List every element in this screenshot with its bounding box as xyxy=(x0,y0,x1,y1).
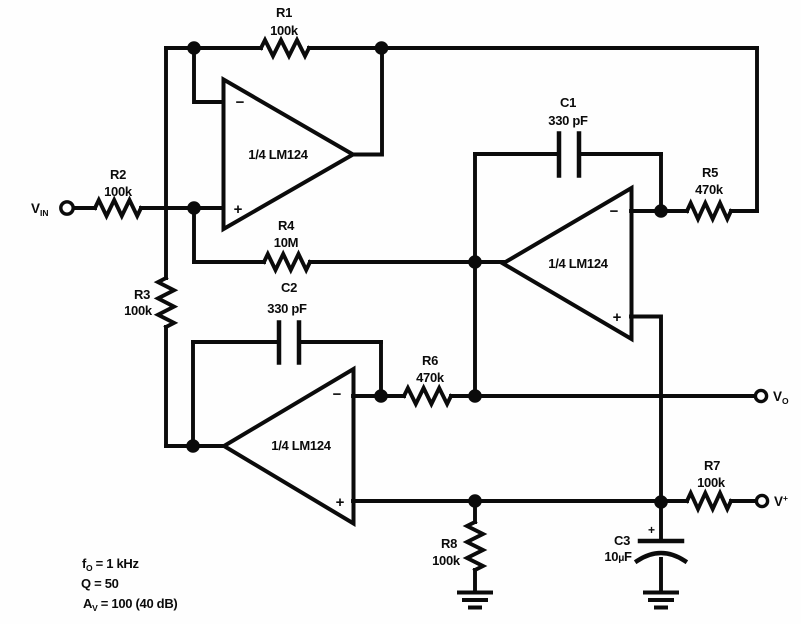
junction: op1 output on top bus xyxy=(375,41,389,55)
svg-text:R4: R4 xyxy=(278,218,295,233)
svg-text:100k: 100k xyxy=(432,553,461,568)
svg-text:100k: 100k xyxy=(270,23,299,38)
svg-text:10M: 10M xyxy=(274,235,298,250)
svg-text:1/4 LM124: 1/4 LM124 xyxy=(248,147,309,162)
svg-text:1/4 LM124: 1/4 LM124 xyxy=(271,438,332,453)
junction: op2 inverting node xyxy=(654,204,668,218)
capacitor C3 polarized plates xyxy=(640,539,682,544)
resistor R2 xyxy=(95,200,141,216)
wire: op1 inverting input drop from top bus xyxy=(194,48,223,102)
svg-text:R8: R8 xyxy=(441,536,457,551)
junction: op3 inverting node xyxy=(374,389,388,403)
svg-text:+: + xyxy=(613,309,622,326)
capacitor C1 plates xyxy=(559,134,579,176)
svg-text:10μF: 10μF xyxy=(604,549,632,564)
wire: C2 right leg down to op3 inverting node xyxy=(379,342,383,396)
op-amp U2 (1/4 LM124, middle right, mirrored) xyxy=(503,188,632,339)
wire: op3 inverting input / R6 / VO line xyxy=(353,394,755,398)
node V+ terminal xyxy=(756,495,767,506)
svg-text:330 pF: 330 pF xyxy=(548,113,588,128)
svg-text:R3: R3 xyxy=(134,287,150,302)
node VIN terminal xyxy=(61,202,73,214)
wire: op1 output up to top bus xyxy=(353,48,382,155)
svg-text:AV = 100 (40 dB): AV = 100 (40 dB) xyxy=(83,596,177,613)
resistor R7 xyxy=(687,493,731,509)
svg-text:470k: 470k xyxy=(416,370,445,385)
wire: R5 up to top bus xyxy=(755,48,759,211)
junction: op1 inverting node on top bus xyxy=(187,41,201,55)
junction: R8 tap on bias line xyxy=(468,494,482,508)
svg-text:+: + xyxy=(648,523,655,537)
svg-text:+: + xyxy=(234,201,243,218)
junction: VIN summing node xyxy=(187,201,201,215)
wire: op2 output node down to R6 node xyxy=(473,262,477,396)
resistor R8 xyxy=(467,522,483,570)
wire: C3 branch down xyxy=(659,502,663,590)
ground symbol below R8 xyxy=(459,593,491,608)
svg-text:R6: R6 xyxy=(422,353,438,368)
svg-text:100k: 100k xyxy=(697,475,726,490)
wire: left vertical from top bus through R3 xyxy=(164,48,168,446)
wire: C1 feedback top link xyxy=(475,152,661,156)
junction: op3 output node xyxy=(186,439,200,453)
wire: C1 left leg down to op2 output node xyxy=(473,154,477,262)
wire: op3 noninverting / bias line to V+ xyxy=(353,499,756,503)
svg-text:C2: C2 xyxy=(281,280,297,295)
svg-text:+: + xyxy=(336,494,345,511)
ground symbol below C3 xyxy=(645,593,677,608)
svg-text:470k: 470k xyxy=(695,182,724,197)
svg-text:−: − xyxy=(333,386,342,403)
resistor R3 xyxy=(158,278,174,327)
svg-text:330 pF: 330 pF xyxy=(267,301,307,316)
junction: C3 tap on bias line xyxy=(654,495,668,509)
resistor R1 xyxy=(261,40,309,56)
svg-text:−: − xyxy=(610,203,619,220)
svg-text:Q = 50: Q = 50 xyxy=(81,576,119,591)
op-amp U1 (1/4 LM124, top left) xyxy=(224,80,354,230)
junction: op2 output to VO line xyxy=(468,389,482,403)
svg-text:100k: 100k xyxy=(124,303,153,318)
junction: op2 output node on R4 line xyxy=(468,255,482,269)
wire: C1 right leg down to op2 inverting node xyxy=(659,154,663,211)
svg-text:C1: C1 xyxy=(560,95,576,110)
resistor R5 xyxy=(687,203,731,219)
wire: C2 left leg down to op3 output node xyxy=(191,342,195,446)
resistor R4 xyxy=(264,254,310,270)
capacitor C2 plates xyxy=(279,323,299,363)
svg-text:1/4 LM124: 1/4 LM124 xyxy=(548,256,609,271)
node VO terminal xyxy=(755,390,766,401)
svg-text:R2: R2 xyxy=(110,167,126,182)
wire: op1 noninverting node down to R4 line xyxy=(192,208,196,262)
svg-text:R5: R5 xyxy=(702,165,718,180)
resistor R6 xyxy=(404,388,451,404)
svg-text:100k: 100k xyxy=(104,184,133,199)
svg-text:−: − xyxy=(236,94,245,111)
svg-text:R1: R1 xyxy=(276,5,292,20)
op-amp U3 (1/4 LM124, bottom left, mirrored) xyxy=(224,369,354,524)
svg-text:C3: C3 xyxy=(614,533,630,548)
wire: R3 bottom to op3 output node xyxy=(166,444,224,448)
wire: R8 branch down xyxy=(473,501,477,591)
wire: C2 feedback top link xyxy=(193,340,381,344)
svg-text:R7: R7 xyxy=(704,458,720,473)
wire: VIN input line xyxy=(73,206,223,210)
wire: R4 line to op2 output xyxy=(194,260,503,264)
wire: op2 noninverting input drop xyxy=(631,317,661,503)
wire: op2 inverting input to R5 xyxy=(631,209,757,213)
wire: top feedback bus (R1/R5 top rail) xyxy=(166,46,757,50)
